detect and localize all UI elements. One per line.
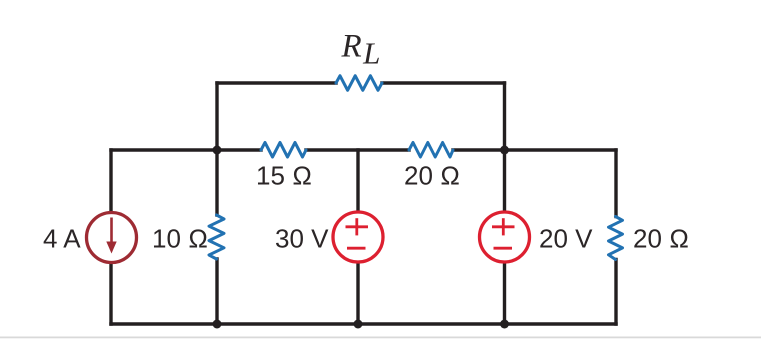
svg-text:4 A: 4 A [43, 224, 81, 254]
svg-text:20 V: 20 V [539, 224, 593, 254]
svg-text:15 Ω: 15 Ω [256, 161, 312, 191]
svg-text:RL: RL [341, 29, 381, 71]
svg-text:10 Ω: 10 Ω [152, 224, 208, 254]
svg-text:30 V: 30 V [275, 224, 329, 254]
svg-text:20 Ω: 20 Ω [404, 161, 460, 191]
svg-text:20 Ω: 20 Ω [633, 224, 689, 254]
